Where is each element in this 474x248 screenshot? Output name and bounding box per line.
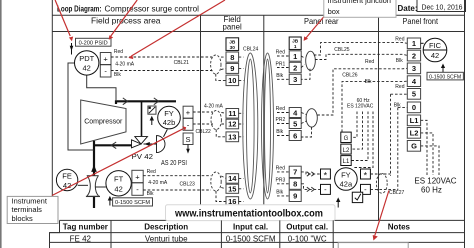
power terminal front-L1 (407, 115, 420, 126)
svg-text:+: + (103, 55, 108, 64)
svg-text:PR3: PR3 (276, 177, 286, 183)
svg-text:9: 9 (230, 64, 234, 73)
instrument bubble FY 42a (335, 168, 358, 191)
wire stub JB1-2 to CBL25 (301, 65, 305, 68)
terminal block of FY42b with + and - pins (183, 106, 193, 130)
svg-text:42: 42 (83, 63, 91, 72)
instrument bubble FT 42 (106, 171, 131, 196)
red annotation line to range box (109, 0, 137, 40)
air supply arrow below S box (186, 145, 190, 154)
svg-text:4-20 mA: 4-20 mA (148, 180, 168, 186)
ground wire front-G to supply (421, 146, 439, 175)
svg-text:FE: FE (62, 171, 72, 180)
callout box bottom right partial (338, 243, 408, 248)
range box 0-200 PSID for PDT42 (76, 38, 112, 46)
date value box (417, 0, 466, 12)
svg-text:Field process area: Field process area (91, 16, 161, 26)
impulse line PDT42 low side to suction pipe (68, 63, 94, 150)
svg-text:42: 42 (431, 51, 439, 60)
ground terminal front-G (407, 141, 420, 152)
air supply port S box of FY42b (183, 133, 193, 145)
svg-text:L2: L2 (343, 148, 350, 154)
svg-text:5: 5 (412, 90, 416, 99)
terminal front-3 (407, 63, 420, 74)
cable gland oval CBL26 at JB1 (306, 109, 317, 127)
input terminal - of FY42a (321, 184, 331, 194)
svg-text:FIC: FIC (429, 41, 442, 50)
svg-text:Red: Red (395, 36, 404, 42)
svg-text:Description: Description (144, 223, 188, 232)
svg-text:Blk: Blk (114, 72, 121, 78)
tap line venturi to FT42 (95, 186, 106, 188)
terminal block of FT42 with + and - pins (132, 170, 143, 195)
wire front-1 to FIC42 (421, 42, 424, 44)
svg-text:box: box (328, 7, 340, 16)
terminal JB30-15 (226, 184, 239, 193)
terminal JB1-8 (289, 178, 301, 189)
svg-text:Notes: Notes (388, 223, 411, 232)
svg-text:1: 1 (294, 44, 297, 50)
flow arrow on suction pipe (91, 165, 97, 172)
terminal JB1-9 (289, 190, 301, 201)
calibration check box with check mark (352, 192, 362, 202)
multicore cable CBL24 conductor loops second bundle (262, 53, 274, 199)
svg-text:www.instrumentationtoolbox.com: www.instrumentationtoolbox.com (174, 208, 323, 219)
wire stub JB1-4 to CBL26 (301, 113, 306, 115)
svg-text:14: 14 (228, 174, 237, 183)
callout box Instrument terminals blocks (7, 196, 58, 223)
svg-text:Blk: Blk (365, 79, 372, 85)
svg-text:Blk: Blk (276, 73, 283, 79)
svg-text:7: 7 (293, 168, 297, 177)
terminal JB1-5 (289, 119, 301, 129)
terminal JB1-7 (289, 166, 301, 177)
control valve PV42 angle body (132, 137, 148, 148)
junction box JB1 header (289, 37, 301, 50)
direction chevrons on FY42a input wire 2 (307, 187, 315, 191)
wire CBL27 riser into front-0 (398, 107, 408, 109)
pipe: recycle line from valve PV42 (94, 144, 132, 146)
svg-text:Red: Red (114, 49, 123, 55)
svg-text:Tag number: Tag number (63, 223, 108, 232)
shield stub CBL26 to JB1-6 (301, 127, 311, 137)
wire segment into JB30-15 (221, 188, 226, 189)
wire segment into JB30-14 (221, 176, 226, 178)
wire CBL25 Red to panel front terminal 1 (314, 43, 408, 55)
wire CBL25 Blk to panel front terminal 2 (315, 54, 407, 59)
wire FY42a output * through CBL27 (370, 173, 390, 175)
flow arrow on discharge pipe 2 (154, 98, 159, 105)
svg-text:10: 10 (228, 76, 236, 85)
terminal JB30-10 (226, 75, 239, 86)
svg-text:G: G (411, 142, 417, 151)
pipe drop from discharge to valve PV42 (141, 101, 143, 136)
svg-text:ES 120VAC: ES 120VAC (414, 176, 456, 185)
pointer arrow to transfer square (150, 116, 154, 125)
power ground wire drop (353, 112, 373, 168)
red annotation line to CBL27 (373, 191, 389, 241)
multicore cable CBL24 conductor loops (243, 53, 258, 199)
wire PDT42 + Red to JB30-8 (111, 56, 212, 58)
svg-text:Blk: Blk (396, 58, 403, 64)
flow arrow on discharge pipe (123, 98, 128, 105)
svg-text:0-1500 SCFM: 0-1500 SCFM (429, 74, 461, 80)
svg-text:+: + (135, 173, 140, 182)
svg-text:15: 15 (228, 185, 236, 194)
wire stub JB1-1 to CBL25 (301, 56, 304, 58)
input terminal * of FY42a (321, 169, 331, 181)
svg-text:6: 6 (293, 131, 297, 140)
svg-text:FT: FT (114, 175, 124, 184)
cable gland oval CBL27 (376, 173, 387, 193)
terminal JB30-8 (226, 52, 239, 62)
terminal front-0 (407, 102, 420, 113)
terminal JB1-2 (289, 62, 301, 72)
instrument bubble FE 42 (56, 169, 77, 190)
wire segments CBL24 pairs into JB1 terminals (277, 56, 289, 196)
flow arrow on recycle pipe (111, 142, 116, 149)
svg-text:CBL27: CBL27 (389, 190, 405, 196)
terminal JB30-14 (226, 174, 239, 184)
pair PR1 wire labels Red PR1 Blk (276, 50, 286, 80)
wire stubs JB30 terminals to cable CBL24 (239, 57, 244, 201)
terminal JB1-1 (289, 51, 301, 61)
junction box JB30 header (226, 38, 239, 51)
svg-text:CBL21: CBL21 (174, 60, 190, 66)
svg-text:8: 8 (230, 53, 234, 62)
terminal front-4 (407, 76, 420, 87)
svg-text:11: 11 (228, 109, 236, 118)
wire FT42 - Blk to JB30-15 (143, 189, 211, 191)
terminal JB1-4 (289, 108, 301, 118)
svg-text:FY: FY (341, 170, 351, 179)
svg-text:9: 9 (293, 192, 297, 201)
svg-text:blocks: blocks (12, 214, 34, 223)
pointer arrow below FY42a (336, 197, 340, 207)
range box 0-1500 SCFM for FT42 (113, 198, 153, 206)
svg-text:L1: L1 (410, 116, 419, 125)
svg-text:0-100 "WC: 0-100 "WC (288, 234, 327, 243)
wire FY42b + to JB30-11 (193, 111, 213, 113)
bottom table grid (50, 220, 465, 248)
power terminal L1 of FY42a (341, 156, 351, 166)
vent arrow at PDT42 (70, 43, 74, 55)
shield wire into JB30-10 (216, 74, 226, 80)
wire CBL27 riser vertical front-5 (390, 94, 392, 176)
watermark box www.instrumentationtoolbox.com (166, 205, 336, 221)
svg-text:Input cal.: Input cal. (233, 223, 268, 232)
wire FT42 + Red to JB30-14 (143, 175, 211, 177)
wire CBL26 Blk to panel front terminal 4 and ground drop to G (342, 81, 407, 132)
terminal JB1-3 (289, 74, 301, 84)
svg-text:G: G (344, 136, 349, 142)
callout box Instrument junction box (324, 0, 396, 17)
svg-text:0: 0 (412, 103, 416, 112)
wire JB1-8 to FY42a input - (301, 184, 320, 190)
svg-text:Blk: Blk (276, 129, 283, 135)
wire FY42b - to JB30-12 (193, 123, 213, 125)
power wire front-L1 to supply (421, 120, 427, 175)
svg-text:4-20 mA: 4-20 mA (204, 103, 224, 109)
wire segment into JB30-11 (221, 112, 226, 115)
transfer function square at FY42b (148, 106, 156, 114)
window left edge line (0, 0, 2, 248)
svg-text:2: 2 (412, 51, 416, 60)
svg-text:S: S (185, 135, 190, 144)
pointer arrow to FT42 range box (108, 196, 112, 206)
instrument bubble FIC 42 panel mounted (423, 38, 447, 62)
direction chevrons on FY42a input wire (307, 172, 315, 176)
wire segment into JB30-8 (221, 56, 226, 58)
pair PR2 wire labels Red PR2 Blk (276, 106, 286, 135)
svg-text:CBL24: CBL24 (243, 46, 259, 52)
impulse line PDT42 high side to discharge pipe (87, 75, 116, 101)
red annotation line to vent arrow (55, 0, 73, 41)
pipe: compressor suction upper (93, 141, 95, 176)
shield wire into JB30-13 (216, 130, 226, 137)
svg-text:8: 8 (293, 180, 297, 189)
compressor body (81, 100, 126, 144)
power wire to FY42a G terminal (351, 112, 357, 138)
svg-text:FY: FY (164, 109, 174, 118)
red annotation line to junction box JB1 (304, 17, 324, 41)
svg-text:CBL23: CBL23 (180, 182, 196, 188)
svg-text:AS 20 PSI: AS 20 PSI (161, 158, 187, 167)
output terminal - of FY42a (361, 184, 371, 194)
power wire to FY42a L2 terminal (351, 112, 362, 150)
svg-text:2: 2 (293, 63, 297, 72)
power wire front-L2 to supply (421, 133, 433, 175)
wire FY42a output - through CBL27 (370, 188, 397, 190)
svg-text:1: 1 (412, 39, 416, 48)
svg-text:Red: Red (147, 169, 156, 175)
shield wire into JB30-16 (216, 191, 226, 202)
signal line FY42b to actuator (164, 130, 168, 137)
terminal JB30-11 (226, 109, 239, 119)
power terminal L2 of FY42a (341, 144, 351, 154)
svg-text:Instrument junction: Instrument junction (328, 0, 391, 5)
power wire to FY42a L1 terminal (351, 112, 368, 161)
terminal front-5 (407, 89, 420, 100)
svg-text:Red: Red (276, 166, 285, 172)
svg-text:0-1500 SCFM: 0-1500 SCFM (226, 234, 276, 243)
terminal front-2 (407, 50, 420, 61)
red annotation line to 4-20 mA signal (128, 0, 225, 59)
svg-text:0-200 PSID: 0-200 PSID (79, 40, 108, 46)
instrument bubble FY 42b (158, 106, 181, 129)
wire PDT42 - Blk to JB30-9 (111, 70, 212, 72)
svg-text:*: * (364, 171, 368, 181)
cable gland oval CBL21 (211, 55, 221, 74)
wire CBL27 riser vertical front-0 (397, 108, 399, 191)
cable gland oval CBL22 (211, 111, 221, 130)
svg-text:PR2: PR2 (276, 117, 286, 123)
svg-text:Compressor: Compressor (84, 119, 123, 126)
wire segment into JB30-9 (221, 68, 226, 69)
svg-text:PR1: PR1 (276, 61, 286, 67)
svg-text:Red: Red (365, 59, 374, 65)
svg-text:5: 5 (293, 119, 297, 128)
valve stem line with arrow (144, 142, 157, 146)
svg-text:Blk: Blk (276, 190, 283, 196)
wire JB1-7 to FY42a input * (301, 172, 320, 174)
svg-text:ES 120VAC: ES 120VAC (347, 104, 374, 110)
svg-text:CBL22: CBL22 (196, 129, 212, 135)
svg-text:Red: Red (276, 106, 285, 112)
pointer arrow to FIC42 (441, 64, 445, 73)
tap line FE42 to venturi (78, 184, 88, 186)
svg-text:CBL25: CBL25 (334, 47, 350, 53)
terminal block of PDT42 with + and - pins (100, 53, 111, 78)
cable gland oval CBL23 (211, 172, 221, 191)
svg-text:1: 1 (293, 52, 297, 61)
svg-text:12: 12 (228, 120, 236, 129)
wire stub JB1-5 to CBL26 (301, 121, 306, 124)
svg-text:+: + (186, 108, 191, 117)
svg-text:Compressor surge control: Compressor surge control (105, 4, 200, 14)
svg-text:Venturi tube: Venturi tube (145, 234, 188, 243)
svg-text:60 Hz: 60 Hz (421, 186, 442, 195)
svg-text:L2: L2 (410, 129, 419, 138)
svg-text:JB: JB (292, 39, 299, 45)
instrument bubble PDT 42 (75, 51, 99, 75)
svg-text:Dec 10, 2016: Dec 10, 2016 (422, 3, 463, 12)
svg-text:42: 42 (114, 184, 122, 193)
terminal JB1-6 (289, 131, 301, 141)
terminal JB30-12 (226, 119, 239, 129)
cable gland oval CBL25 at JB1 (306, 51, 316, 70)
actuator diaphragm dome of PV42 (157, 136, 166, 153)
pair PR3 wire labels Red PR3 Blk (276, 166, 286, 196)
svg-text:L1: L1 (343, 159, 350, 165)
svg-text:Date:: Date: (398, 3, 418, 13)
svg-text:13: 13 (228, 133, 236, 142)
power terminal G of FY42a (341, 132, 351, 142)
terminal JB30-13 (226, 132, 239, 142)
svg-text:3: 3 (293, 75, 297, 84)
svg-text:3: 3 (412, 64, 416, 73)
terminal JB30-9 (226, 63, 239, 73)
svg-text:4-20 mA: 4-20 mA (115, 61, 135, 67)
svg-text:42b: 42b (163, 118, 176, 127)
svg-text:Output cal.: Output cal. (286, 223, 328, 232)
range box 0-1500 SCFM for FIC42 (427, 72, 463, 80)
wire segment into JB30-12 (221, 123, 226, 125)
svg-text:*: * (324, 171, 328, 181)
power terminal front-L2 (407, 128, 420, 139)
svg-text:Red: Red (276, 50, 285, 56)
svg-text:Blk: Blk (394, 102, 401, 108)
svg-text:JB: JB (229, 40, 236, 46)
pipe: compressor discharge (116, 101, 176, 104)
wire CBL27 riser into front-5 (391, 93, 408, 95)
svg-text:30: 30 (230, 45, 236, 51)
svg-text:PDT: PDT (79, 54, 94, 63)
svg-text:panel: panel (223, 21, 242, 31)
red annotation line to FY42b terminals (52, 126, 186, 195)
svg-text:Blk: Blk (147, 191, 154, 197)
svg-text:FE 42: FE 42 (70, 234, 92, 243)
svg-text:42a: 42a (340, 179, 353, 188)
shield stub CBL25 to JB1-3 (301, 69, 310, 80)
terminal JB30-16 (226, 197, 239, 207)
pipe: compressor suction lower (93, 197, 95, 208)
venturi tube FE42 primary element (86, 176, 100, 197)
svg-text:Panel front: Panel front (403, 16, 439, 26)
output terminal * of FY42a (361, 169, 371, 181)
svg-text:Red: Red (395, 84, 404, 90)
svg-text:CBL26: CBL26 (342, 72, 358, 78)
terminal front-1 (407, 38, 420, 49)
svg-text:Loop Diagram:: Loop Diagram: (57, 4, 102, 14)
wire CBL26 Red to panel front terminal 3 (317, 68, 407, 115)
svg-text:0-1500 SCFM: 0-1500 SCFM (115, 200, 150, 206)
